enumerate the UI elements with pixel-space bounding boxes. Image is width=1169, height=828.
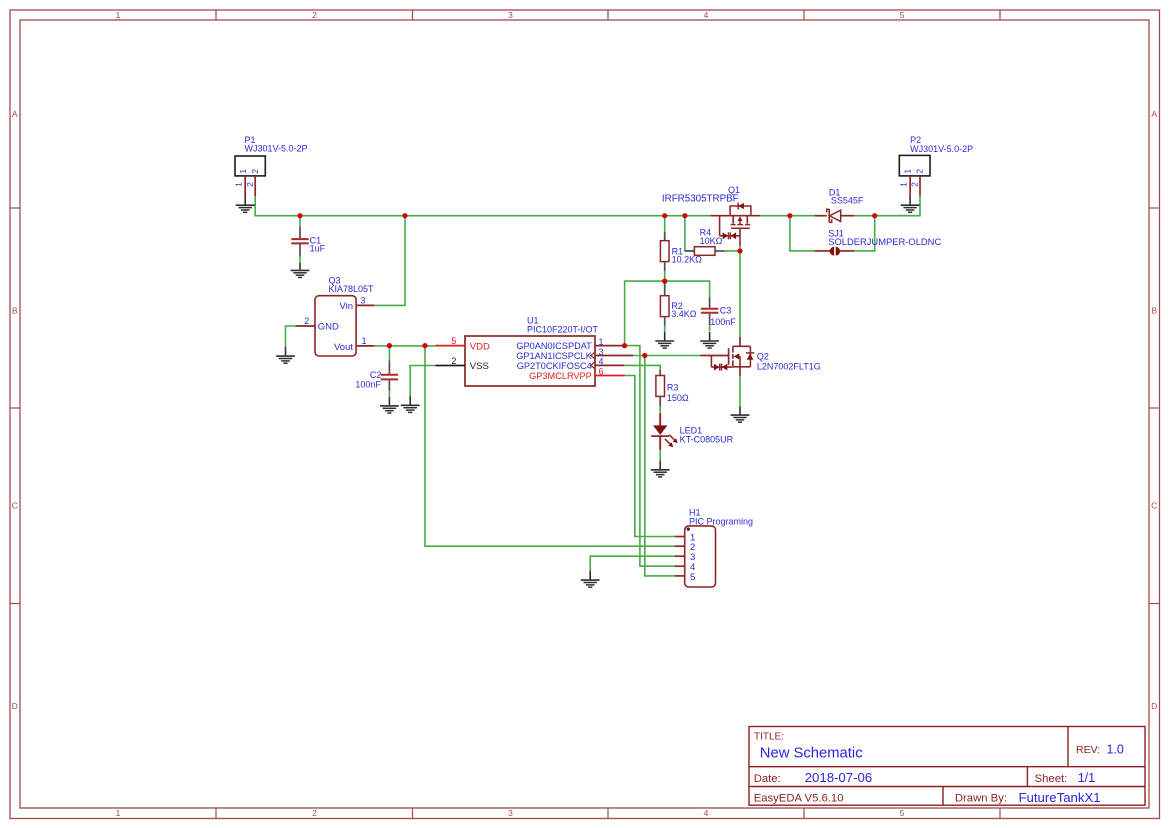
ground U1 VSS: [409, 396, 411, 405]
title block: [749, 727, 1145, 806]
svg-text:New Schematic: New Schematic: [760, 746, 863, 762]
svg-text:KIA78L05T: KIA78L05T: [329, 284, 375, 294]
svg-text:1: 1: [238, 169, 248, 174]
ground Q2 source: [739, 406, 741, 415]
svg-text:B: B: [1151, 306, 1157, 316]
svg-text:D: D: [12, 701, 18, 711]
capacitor C1: [299, 227, 301, 237]
svg-text:3: 3: [508, 808, 513, 818]
wire R1 bottom to rail: [664, 271, 666, 281]
wire Q3 Vout to U1 VDD: [374, 345, 435, 347]
junction GP0 node: [622, 343, 627, 348]
ground LED1: [659, 461, 661, 470]
wire bus Q1 drain to D1 anode: [760, 215, 815, 217]
wire C1 top branch: [299, 216, 301, 227]
svg-text:1: 1: [598, 337, 603, 347]
svg-text:WJ301V-5.0-2P: WJ301V-5.0-2P: [910, 144, 973, 154]
wire C3 bottom to ground: [709, 325, 711, 331]
svg-text:3: 3: [508, 10, 513, 20]
ground Q3 GND: [285, 347, 287, 356]
wire R3 bottom to LED1: [659, 407, 661, 413]
capacitor C2: [388, 361, 390, 372]
ground C1: [299, 263, 301, 271]
solder jumper SJ1: [815, 250, 831, 252]
wire GP1 down to H1 pin5: [645, 356, 675, 576]
resistor R1: [664, 232, 666, 241]
svg-text:2: 2: [304, 316, 309, 326]
ground H1 pin3: [589, 571, 591, 580]
svg-text:1.0: 1.0: [1107, 742, 1124, 756]
svg-text:6: 6: [598, 367, 603, 377]
ground C2: [388, 397, 390, 406]
resistor R2: [664, 283, 666, 296]
svg-text:2: 2: [250, 169, 260, 174]
svg-text:REV:: REV:: [1076, 744, 1100, 756]
svg-text:1: 1: [903, 169, 913, 174]
junction R1-R2 node: [662, 279, 667, 284]
svg-text:A: A: [12, 109, 18, 119]
svg-text:GP0AN0ICSPDAT: GP0AN0ICSPDAT: [516, 341, 592, 351]
svg-text:2018-07-06: 2018-07-06: [805, 770, 872, 785]
wire GP0 node net: [625, 346, 675, 567]
svg-text:C3: C3: [720, 306, 732, 316]
wire R2 bottom to ground: [664, 326, 666, 332]
svg-text:1: 1: [116, 10, 121, 20]
svg-text:1uF: 1uF: [310, 244, 326, 254]
svg-text:B: B: [12, 306, 18, 316]
svg-text:2: 2: [245, 182, 255, 187]
junction bus-SJ1-left: [787, 213, 792, 218]
wire GP1 node to Q2 gate: [633, 355, 701, 357]
transistor Q2 L2N7002FLT1G: [739, 337, 741, 347]
svg-text:PIC Programing: PIC Programing: [689, 516, 753, 526]
wire SJ1 left riser: [790, 216, 815, 251]
ground R2: [664, 332, 666, 341]
wire Q1 gate node down to Q2 drain: [739, 246, 741, 337]
wire main 5V bus from P1 pin2 across top: [255, 196, 710, 216]
wire Q3 GND pin to ground: [286, 326, 296, 347]
svg-text:10.2KΩ: 10.2KΩ: [672, 255, 703, 265]
svg-text:2: 2: [312, 10, 317, 20]
capacitor C3: [709, 297, 711, 306]
svg-text:A: A: [1151, 109, 1157, 119]
wire C2 top branch: [388, 346, 390, 361]
connector H1 PIC Programing: [685, 526, 716, 587]
svg-text:3: 3: [598, 347, 603, 357]
svg-text:2: 2: [910, 182, 920, 187]
ground P1 pin1: [244, 196, 246, 205]
junction VDD-H1pin2: [422, 343, 427, 348]
svg-text:Date:: Date:: [754, 773, 781, 785]
svg-text:Vin: Vin: [339, 301, 353, 312]
junction bus-R1: [662, 213, 667, 218]
wire bus to R4 left: [685, 216, 695, 251]
svg-text:C: C: [1151, 501, 1157, 511]
transistor Q1 IRFR5305TRPBF: [710, 215, 760, 217]
svg-text:Q2: Q2: [757, 352, 769, 362]
svg-text:PIC10F220T-I/OT: PIC10F220T-I/OT: [527, 324, 599, 334]
wire R2/C3 top rail: [625, 281, 710, 346]
junction bus-Q3Vin: [402, 213, 407, 218]
wire U1 VSS to ground: [410, 366, 435, 397]
svg-text:SS545F: SS545F: [831, 196, 864, 206]
junction VDD-C2: [387, 343, 392, 348]
svg-text:5: 5: [451, 336, 456, 346]
wire Q2 source to ground: [739, 376, 741, 406]
svg-text:1: 1: [116, 808, 121, 818]
svg-text:SOLDERJUMPER-OLDNC: SOLDERJUMPER-OLDNC: [828, 236, 941, 247]
svg-text:Sheet:: Sheet:: [1035, 773, 1068, 785]
svg-text:5: 5: [900, 10, 905, 20]
LED LED1: [659, 413, 661, 425]
svg-text:150Ω: 150Ω: [667, 393, 689, 403]
wire SJ1 right riser: [854, 216, 875, 251]
wire D1 cathode to P2 pin2: [854, 196, 920, 216]
svg-text:100nF: 100nF: [710, 317, 736, 327]
svg-text:3: 3: [360, 296, 365, 306]
junction bus-C1: [297, 213, 302, 218]
svg-text:10KΩ: 10KΩ: [700, 236, 723, 246]
resistor R3: [659, 370, 661, 376]
svg-text:4: 4: [598, 357, 603, 367]
svg-text:5: 5: [900, 808, 905, 818]
svg-text:1/1: 1/1: [1078, 771, 1095, 785]
svg-text:R3: R3: [667, 383, 679, 393]
svg-text:4: 4: [704, 10, 709, 20]
ground C3: [709, 332, 711, 341]
svg-text:2: 2: [312, 808, 317, 818]
svg-text:D: D: [1151, 701, 1157, 711]
junction Q1 gate node: [737, 248, 742, 253]
regulator Q3 KIA78L05T: [315, 296, 356, 356]
junction GP1 node: [642, 353, 647, 358]
svg-text:Drawn By:: Drawn By:: [955, 793, 1007, 805]
svg-text:4: 4: [704, 808, 709, 818]
wire LED1 cathode to ground: [659, 450, 661, 461]
svg-text:100nF: 100nF: [355, 379, 381, 389]
svg-text:2: 2: [915, 169, 925, 174]
svg-text:KT-C0805UR: KT-C0805UR: [680, 434, 734, 444]
svg-text:1: 1: [898, 182, 908, 187]
svg-text:GP1AN1ICSPCLK: GP1AN1ICSPCLK: [516, 351, 592, 361]
svg-text:Vout: Vout: [334, 342, 353, 353]
svg-text:TITLE:: TITLE:: [754, 732, 784, 743]
wire VDD down to H1 pin2: [425, 346, 675, 547]
svg-text:GP2T0CKIFOSC4: GP2T0CKIFOSC4: [517, 361, 592, 371]
svg-text:VSS: VSS: [470, 361, 489, 372]
svg-text:2: 2: [451, 356, 456, 366]
connector P2: [899, 155, 930, 176]
wire H1 pin3 to ground: [590, 556, 675, 571]
svg-text:5: 5: [690, 572, 695, 583]
junction bus-SJ1-right: [872, 213, 877, 218]
svg-text:VDD: VDD: [470, 341, 490, 352]
svg-text:EasyEDA V5.6.10: EasyEDA V5.6.10: [754, 793, 844, 805]
wire R4 right to gate node: [725, 250, 740, 252]
svg-text:C: C: [12, 501, 18, 511]
wire bus to R1 top: [664, 216, 666, 232]
junction bus-R4: [682, 213, 687, 218]
diode D1 SS545F: [815, 215, 827, 217]
svg-text:IRFR5305TRPBF: IRFR5305TRPBF: [662, 193, 739, 204]
ground P2 pin1: [909, 196, 911, 205]
wire GP2 to R3 top: [624, 365, 660, 370]
wire bus to Q3 Vin: [374, 216, 405, 306]
resistor R4: [685, 250, 695, 252]
svg-text:FutureTankX1: FutureTankX1: [1019, 790, 1101, 805]
wire GP3 down to H1 pin1: [625, 376, 675, 537]
svg-text:GP3MCLRVPP: GP3MCLRVPP: [529, 371, 592, 381]
connector P1: [235, 156, 265, 176]
svg-text:GND: GND: [318, 321, 339, 332]
svg-text:1: 1: [361, 336, 366, 346]
IC U1 PIC10F220T-I/OT: [465, 336, 595, 386]
svg-text:L2N7002FLT1G: L2N7002FLT1G: [757, 361, 821, 371]
svg-text:WJ301V-5.0-2P: WJ301V-5.0-2P: [245, 144, 308, 154]
svg-text:1: 1: [233, 182, 243, 187]
svg-text:3.4KΩ: 3.4KΩ: [671, 309, 697, 319]
